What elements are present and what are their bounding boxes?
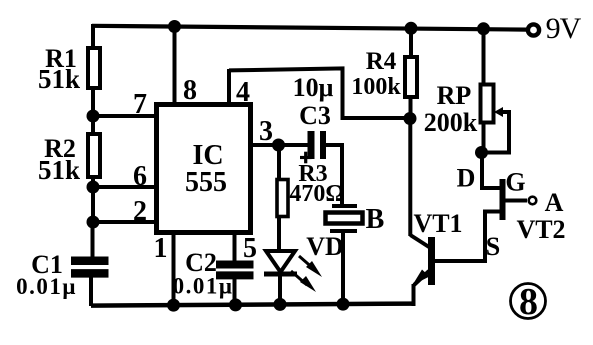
resistor R1	[88, 48, 100, 88]
svg-text:10μ: 10μ	[293, 73, 334, 102]
wire: pin6 node to pin2 node	[91, 187, 95, 222]
svg-text:1: 1	[154, 233, 168, 264]
node: VD on bottom rail	[274, 298, 287, 311]
capacitor C3 (electrolytic)	[311, 131, 323, 159]
node: junction R1/R2/pin7	[87, 110, 100, 123]
wire: R2 bottom to pin6 node	[91, 177, 95, 188]
svg-text:S: S	[486, 232, 500, 261]
capacitor C1	[71, 261, 109, 274]
wire: R1 junction to R2 top	[91, 116, 95, 136]
svg-text:C3: C3	[299, 101, 331, 130]
LED VD	[264, 251, 297, 274]
node: pin3 junction	[272, 139, 285, 152]
wire: VT1 base to VT2 source	[435, 212, 500, 262]
wire: B bottom to rail	[341, 231, 345, 306]
svg-text:VT1: VT1	[413, 209, 462, 238]
wire: C1 bottom to ground rail	[89, 275, 93, 306]
wire: pin 4 vertical	[227, 69, 231, 104]
wire: bottom rail	[91, 304, 414, 306]
wire: VT1 collector vertical	[408, 119, 412, 237]
node: R4 top on rail	[405, 22, 418, 35]
resistor R4	[405, 57, 417, 97]
wire: RP top lead	[482, 29, 486, 85]
node: R4 bottom junction	[404, 112, 417, 125]
wire: top 9V rail	[92, 26, 527, 30]
potentiometer RP	[481, 85, 510, 153]
transistor VT1	[410, 235, 435, 285]
node: RP wiper junction	[475, 146, 488, 159]
svg-text:B: B	[366, 204, 385, 235]
svg-text:6: 6	[133, 161, 147, 192]
node: junction R2/pin6	[87, 181, 100, 194]
wire: VT2 gate lead	[505, 199, 527, 203]
svg-text:555: 555	[185, 167, 227, 198]
wire: R4 top lead	[409, 28, 413, 58]
wire: pin2 node down to C1	[91, 222, 95, 258]
wire: R4 bottom lead	[409, 97, 413, 119]
svg-text:470Ω: 470Ω	[289, 181, 344, 207]
terminal A	[529, 197, 537, 205]
svg-text:8: 8	[519, 281, 538, 323]
svg-text:9V: 9V	[546, 12, 582, 45]
wire: pin 5 to C2	[233, 233, 237, 262]
LED VD light arrow 2	[291, 271, 316, 292]
node: C2 on bottom rail	[229, 298, 242, 311]
svg-text:8: 8	[183, 75, 197, 106]
wire: C2 bottom to rail	[233, 277, 237, 306]
wire: pin 6	[93, 185, 157, 189]
node: pin1 on bottom rail	[167, 299, 180, 312]
IC U1 555	[157, 105, 251, 233]
wire: pin 4 to R4 bottom (stepped)	[229, 68, 410, 118]
svg-text:51k: 51k	[38, 64, 80, 94]
svg-text:VD: VD	[306, 232, 344, 261]
node: junction pin2/C1	[87, 216, 100, 229]
node: pin8 on top rail	[168, 20, 181, 33]
wire: VD to rail	[278, 274, 282, 306]
transistor VT2 (FET)	[500, 179, 506, 220]
wire: R1 bottom to node 7	[91, 88, 95, 117]
node: B on bottom rail	[337, 298, 350, 311]
svg-text:4: 4	[236, 77, 250, 108]
terminal 9V	[528, 24, 539, 35]
svg-text:0.01μ: 0.01μ	[16, 274, 77, 299]
wire: RP bottom lead	[482, 122, 486, 153]
svg-text:100k: 100k	[351, 74, 401, 100]
wire: pin 7	[93, 114, 157, 118]
svg-text:3: 3	[259, 116, 273, 147]
svg-text:A: A	[545, 188, 564, 217]
svg-text:G: G	[505, 168, 525, 197]
capacitor C2	[216, 265, 254, 276]
wire: VT2 drain lead	[482, 153, 500, 189]
svg-text:VT2: VT2	[516, 215, 565, 244]
svg-text:R4: R4	[366, 48, 397, 75]
label + (C3 polarity)	[300, 152, 312, 164]
wire: pin 3	[252, 143, 308, 147]
svg-text:2: 2	[133, 196, 147, 227]
wire: C3 to B	[326, 145, 342, 204]
figure number 8	[511, 281, 546, 323]
resistor R3	[277, 180, 288, 217]
svg-text:0.01μ: 0.01μ	[173, 274, 234, 299]
piezo sounder B	[326, 206, 363, 231]
svg-text:51k: 51k	[38, 155, 80, 185]
wire: pin3 node down to R3	[277, 145, 281, 180]
svg-text:D: D	[457, 164, 476, 193]
wire: VT1 emitter to rail	[412, 284, 416, 306]
wire: R1 top lead	[91, 24, 95, 50]
svg-text:7: 7	[133, 89, 147, 120]
wire: pin 8	[173, 27, 177, 105]
wire: pin 2	[93, 220, 157, 224]
wire: R3 to VD	[277, 216, 281, 251]
svg-text:RP: RP	[437, 81, 472, 110]
wire: pin 1	[172, 233, 176, 306]
svg-text:200k: 200k	[424, 108, 478, 137]
svg-text:5: 5	[243, 233, 257, 264]
node: RP top on rail	[477, 22, 490, 35]
resistor R2	[88, 134, 100, 177]
LED VD light arrow 1	[299, 256, 322, 277]
